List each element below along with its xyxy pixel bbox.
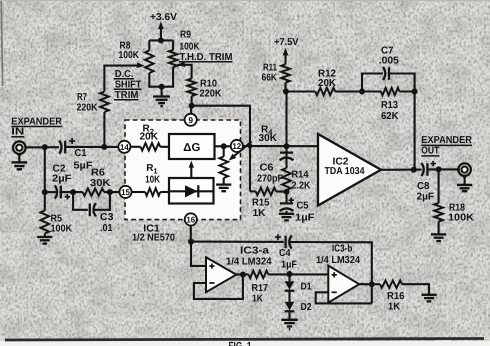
svg-text:2µF: 2µF: [417, 192, 435, 203]
resistor R2: [141, 143, 161, 150]
capacitor C7 loop: [362, 74, 415, 92]
wire R1 to rect box: [160, 191, 169, 193]
ground R4: [223, 178, 225, 184]
trimpot R9: [169, 50, 178, 67]
resistor R14: [282, 168, 291, 190]
wire node to pin9: [190, 106, 192, 115]
wire pin16 down: [190, 225, 192, 242]
node trim top: [158, 37, 164, 43]
output jack J2: [458, 163, 471, 176]
node rail mid: [359, 89, 365, 95]
wire C4 to IC3b out: [290, 242, 372, 303]
svg-text:30K: 30K: [90, 178, 111, 189]
svg-text:30K: 30K: [259, 133, 278, 144]
svg-text:1K: 1K: [253, 208, 267, 219]
capacitor C8: [421, 163, 427, 176]
wire R7 top run: [104, 66, 137, 92]
white area below bottom rule: [0, 341, 490, 346]
resistor R10: [187, 79, 196, 96]
resistor R1: [145, 188, 160, 195]
wire pin14 to R2: [130, 146, 141, 148]
wire feedback rail: [286, 90, 415, 92]
IC1 dashed outline: [125, 120, 241, 220]
svg-text:R13: R13: [381, 100, 398, 111]
svg-text:270pF: 270pF: [257, 174, 283, 185]
underline EXPANDER OUT: [421, 144, 472, 146]
op-amp IC2: [318, 134, 381, 206]
diode D2: [288, 291, 290, 302]
ground R5: [44, 234, 46, 237]
resistor R11: [281, 64, 290, 82]
wire C2 to R6: [61, 191, 83, 193]
node out feedback: [411, 167, 417, 173]
svg-text:9: 9: [188, 115, 193, 125]
svg-text:2µF: 2µF: [52, 174, 72, 185]
svg-text:IN: IN: [11, 127, 24, 138]
capacitor C3: [90, 203, 96, 216]
pin 12: [231, 140, 243, 152]
resistor R16: [359, 283, 380, 285]
svg-text:1K: 1K: [388, 301, 401, 312]
plus sign C4: [275, 234, 281, 240]
IC1 NE570 white box fill: [125, 120, 241, 220]
op-amp IC3-b: [328, 266, 359, 303]
svg-text:+3.6V: +3.6V: [150, 12, 177, 23]
delta-G cell box: [169, 134, 215, 159]
wire rail to out node: [414, 92, 416, 170]
wire input down leg: [44, 147, 46, 192]
svg-text:R14: R14: [292, 170, 309, 181]
svg-text:IC3-b: IC3-b: [332, 244, 353, 255]
underline OUT: [421, 155, 439, 157]
resistor R17: [236, 273, 248, 275]
resistor R18: [438, 169, 440, 203]
wire R6 to pin15: [104, 191, 120, 193]
wire C8 to jack: [427, 168, 459, 170]
ground R18: [438, 222, 440, 234]
resistor R5: [44, 192, 46, 210]
pin 9: [185, 114, 197, 126]
IC3-a plus sign: [209, 264, 214, 269]
node C2 left: [42, 189, 48, 195]
svg-text:EXPANDER: EXPANDER: [421, 135, 472, 146]
svg-text:14: 14: [120, 142, 129, 152]
svg-text:.01: .01: [100, 223, 113, 234]
svg-text:62K: 62K: [381, 111, 399, 122]
svg-text:20K: 20K: [140, 132, 159, 143]
bottom rule: [5, 337, 484, 341]
node pin16: [188, 239, 194, 245]
svg-text:100K: 100K: [448, 213, 475, 224]
svg-text:16: 16: [186, 215, 195, 225]
rectifier diode: [185, 185, 198, 197]
svg-text:C8: C8: [417, 181, 430, 192]
underline TRIM: [114, 99, 139, 101]
pin 15: [119, 186, 131, 198]
left edge scan artifact: [1, 0, 2, 86]
capacitor C1: [59, 141, 65, 154]
wire pin12 to IC2: [242, 145, 318, 147]
node crossing feed: [248, 144, 253, 149]
capacitor C3 loop: [73, 192, 110, 210]
node R14 bottom: [284, 189, 290, 195]
resistor R13: [381, 88, 399, 95]
svg-text:ΔG: ΔG: [183, 142, 200, 154]
wire dG to pin12: [215, 145, 232, 147]
svg-text:100K: 100K: [119, 50, 140, 61]
svg-text:12: 12: [232, 141, 241, 151]
svg-text:220K: 220K: [77, 103, 99, 114]
wire jack to C1: [26, 146, 59, 148]
resistor R12: [315, 88, 335, 95]
wire pin15 to R1: [131, 191, 145, 193]
ground below input jack: [18, 156, 20, 162]
node IC3-a out: [240, 272, 246, 278]
node D1 top: [287, 271, 293, 277]
svg-text:66K: 66K: [262, 73, 278, 84]
svg-text:5µF: 5µF: [74, 160, 93, 171]
wire to IC3a plus: [191, 242, 206, 266]
svg-text:1K: 1K: [252, 294, 264, 305]
svg-text:D1: D1: [301, 281, 312, 292]
ground R16: [402, 284, 429, 294]
node R10 bottom: [189, 103, 195, 109]
svg-text:C3: C3: [100, 212, 114, 223]
plus sign C2: [65, 194, 70, 199]
wire trim bottom: [149, 67, 173, 87]
svg-text:1µF: 1µF: [295, 212, 315, 223]
svg-text:FIG. 1: FIG. 1: [229, 341, 252, 346]
plus sign C8: [431, 161, 436, 166]
arrowhead R9 wiper: [177, 62, 185, 68]
resistor R15: [250, 190, 256, 192]
svg-text:IC3-a: IC3-a: [240, 246, 270, 257]
svg-text:R15: R15: [252, 198, 270, 209]
node rail left: [283, 89, 289, 95]
capacitor C6: [280, 153, 294, 161]
arrow R4 wiper: [232, 142, 252, 159]
node R18 top: [436, 166, 442, 172]
capacitor C4: [286, 235, 292, 248]
node R6 right: [107, 189, 113, 195]
svg-text:20K: 20K: [318, 78, 337, 89]
wire R10 rail to feed: [192, 106, 250, 192]
svg-text:R6: R6: [91, 168, 105, 179]
svg-text:TDA 1034: TDA 1034: [325, 166, 365, 177]
svg-text:15: 15: [121, 187, 130, 197]
node R4 top: [221, 143, 227, 149]
svg-text:C1: C1: [75, 148, 87, 159]
capacitor C2: [55, 186, 61, 199]
underline EXPANDER: [11, 126, 62, 128]
svg-text:1µF: 1µF: [281, 260, 297, 271]
supply +3.6V arrow: [160, 27, 162, 40]
ground D2: [288, 311, 290, 319]
diode D1: [288, 274, 290, 281]
trimpot R8: [145, 51, 154, 74]
IC3-a feedback loop: [194, 275, 243, 299]
top edge scan artifact: [0, 0, 490, 1]
node R7 bottom: [101, 144, 107, 150]
wire to C2: [45, 191, 56, 193]
ground C5: [285, 211, 287, 213]
arrow rect to dG: [190, 166, 192, 178]
resistor R6: [83, 188, 104, 195]
capacitor C7: [383, 67, 389, 80]
svg-text:D2: D2: [301, 302, 312, 313]
svg-text:220K: 220K: [200, 89, 223, 100]
pin 14: [118, 141, 130, 153]
plus sign C1: [69, 138, 75, 144]
capacitor C5: [285, 192, 287, 204]
wire C1 to pin14: [65, 146, 119, 148]
svg-text:C5: C5: [297, 201, 309, 212]
rectifier cell box: [169, 178, 214, 204]
IC3-a minus sign: [209, 282, 214, 284]
wire R10 to node: [191, 96, 193, 106]
svg-text:C6: C6: [260, 163, 274, 174]
IC3-b plus sign: [332, 272, 337, 277]
wire R17 to IC3b: [268, 273, 328, 275]
svg-text:.005: .005: [379, 56, 399, 67]
wire R11 bottom: [284, 83, 286, 92]
svg-text:10K: 10K: [145, 175, 161, 186]
node IC3-b out: [369, 281, 375, 287]
wire IC2 output: [381, 169, 422, 171]
wire node to C4: [191, 241, 284, 243]
node A C6 top: [284, 143, 290, 149]
IC3-b minus sign: [332, 291, 337, 293]
wire rail down to node A: [285, 92, 287, 147]
pin 16: [185, 213, 197, 225]
supply +7.5V arrow: [284, 54, 286, 65]
wire R2 to dG box: [160, 146, 169, 148]
svg-text:C4: C4: [279, 248, 291, 259]
wire R7 bottom: [103, 112, 105, 147]
svg-text:R7: R7: [77, 92, 87, 103]
resistor R7: [100, 92, 109, 113]
wire node A down: [285, 146, 287, 168]
node input/R5: [42, 144, 48, 150]
op-amp IC3-a: [206, 257, 236, 292]
underline SHIFT: [114, 88, 142, 90]
node trim bottom: [159, 84, 165, 90]
wire wiper to R10: [177, 65, 191, 79]
input jack J1: [13, 141, 26, 154]
svg-text:1/4 LM324: 1/4 LM324: [316, 255, 360, 266]
svg-text:100K: 100K: [180, 42, 201, 53]
ground output jack: [464, 178, 466, 184]
svg-text:R9: R9: [180, 30, 191, 41]
rectifier diode line: [169, 190, 214, 192]
svg-text:+7.5V: +7.5V: [274, 37, 299, 48]
svg-text:R17: R17: [252, 283, 269, 294]
node C3 left: [70, 189, 76, 195]
wire trim top bar: [149, 40, 173, 50]
svg-text:OUT: OUT: [421, 146, 439, 157]
node rail right: [412, 89, 418, 95]
variable resistor R4: [223, 146, 225, 156]
plus sign C5: [289, 198, 294, 203]
svg-text:1/2 NE570: 1/2 NE570: [132, 233, 175, 244]
svg-text:1/4 LM324: 1/4 LM324: [226, 257, 272, 268]
underline IN: [11, 136, 24, 138]
svg-text:2.2K: 2.2K: [292, 181, 312, 192]
IC3-b feedback loop: [316, 292, 372, 303]
arrowhead R8 wiper: [137, 62, 145, 68]
ground trim network: [161, 87, 163, 96]
underline D.C.: [114, 78, 134, 80]
svg-text:100K: 100K: [51, 224, 73, 235]
underline T.H.D. TRIM: [179, 61, 233, 63]
